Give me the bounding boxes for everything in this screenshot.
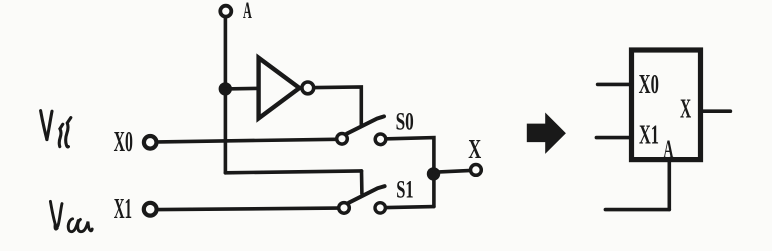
svg-text:S1: S1: [396, 174, 413, 203]
svg-text:S0: S0: [396, 106, 414, 135]
wire S1 output to X node: [387, 207, 434, 208]
wire block output X: [703, 109, 730, 113]
junction dot (A line to inverter input): [219, 82, 232, 95]
switch S1 right contact: [375, 203, 385, 213]
switch S0 lever: [347, 116, 385, 133]
wire S0 output to X node: [388, 138, 434, 207]
switch S0 right contact: [375, 134, 386, 145]
wire A horizontal (to S1 control): [225, 171, 361, 173]
svg-text:X0: X0: [639, 68, 659, 99]
wire A vertical (from terminal A down past X0 line): [224, 18, 228, 173]
switch S0 left contact: [337, 134, 348, 145]
wire block input X1: [596, 136, 629, 140]
label S0: [396, 106, 414, 135]
wire junction to inverter input: [225, 87, 258, 91]
label X1 (left input): [114, 194, 132, 225]
svg-text:X: X: [468, 134, 481, 164]
wire block select A horizontal: [605, 208, 669, 212]
svg-text:X: X: [680, 93, 691, 124]
wire X1 to switch S1: [159, 208, 337, 210]
label X (block output pin): [680, 93, 691, 124]
svg-text:A: A: [663, 134, 673, 164]
label X1 (block input pin): [639, 118, 659, 149]
terminal X (open circle): [471, 165, 482, 176]
wire node to terminal X: [434, 171, 469, 173]
switch S1 left contact: [339, 203, 350, 214]
svg-text:X1: X1: [114, 194, 132, 225]
label S1: [396, 174, 413, 203]
junction dot (output node X): [427, 167, 440, 180]
wire X0 to switch S0: [159, 139, 336, 142]
wire inverter output to S0 control: [316, 87, 362, 125]
switch S1 lever: [349, 186, 385, 203]
terminal X1 (open circle): [144, 203, 157, 216]
handwritten label Vss (supply rail note): [41, 111, 71, 147]
label A (control input): [243, 0, 252, 23]
node A terminal (open circle): [220, 6, 231, 17]
svg-text:X0: X0: [114, 127, 133, 158]
wire block select A vertical: [667, 162, 671, 209]
handwritten label Vcc (supply rail note): [50, 201, 92, 231]
label X (output): [468, 134, 481, 164]
mux block U2 (rectangle): [632, 50, 701, 160]
label X0 (block input pin): [639, 68, 659, 99]
wire block input X0: [598, 83, 629, 87]
label A (block select pin): [663, 134, 673, 164]
inverter output bubble: [302, 82, 314, 94]
label X0 (left input): [114, 127, 133, 158]
arrow (implies / maps-to symbol): [527, 113, 566, 154]
svg-text:A: A: [243, 0, 252, 23]
wire S1 control drop: [360, 171, 364, 194]
svg-text:X1: X1: [639, 118, 659, 149]
inverter U1 (triangle): [259, 58, 300, 119]
terminal X0 (open circle): [144, 136, 157, 149]
